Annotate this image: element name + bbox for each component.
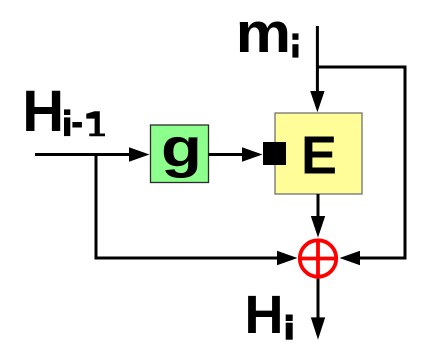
XOR circle — [300, 240, 336, 276]
label H_i — [245, 285, 293, 345]
label H_{i-1} — [22, 79, 105, 144]
svg-text:g: g — [161, 117, 202, 179]
wire right vertical — [404, 67, 407, 260]
wire m branch right horizontal — [317, 66, 406, 69]
arrowhead into XOR left — [277, 251, 298, 265]
svg-text:H: H — [22, 79, 64, 144]
arrowhead into XOR right — [340, 251, 361, 265]
svg-text:H: H — [245, 285, 284, 345]
wire feed-forward bottom left — [95, 257, 279, 260]
arrowhead output — [311, 317, 325, 339]
wire g to E — [209, 153, 244, 156]
wire right to XOR — [359, 257, 405, 260]
arrowhead into key square — [242, 147, 263, 161]
label m_i — [236, 1, 299, 65]
arrowhead into g — [129, 147, 150, 161]
block E — [275, 113, 362, 194]
block g — [151, 125, 209, 183]
XOR cross vertical — [316, 239, 320, 279]
wire E to XOR — [317, 194, 320, 217]
arrowhead into XOR top — [311, 216, 325, 238]
svg-text:m: m — [236, 1, 291, 65]
node branch junction — [95, 155, 98, 260]
wire XOR to output — [317, 279, 320, 319]
key input square — [263, 142, 286, 165]
svg-text:E: E — [301, 126, 337, 186]
wire m vertical — [316, 26, 319, 93]
XOR cross horizontal — [298, 257, 338, 261]
arrowhead into E top — [310, 91, 324, 112]
wire H input horizontal — [35, 153, 130, 156]
